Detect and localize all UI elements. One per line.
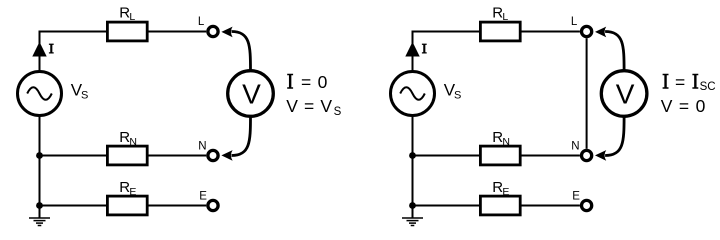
resistor R_L (right) (480, 22, 520, 41)
svg-text:V: V (616, 78, 635, 109)
svg-text:L: L (129, 11, 135, 23)
probe arrow voltmeter to N (left) (232, 116, 251, 156)
junction node earth row (left) (36, 202, 43, 209)
voltmeter V (right) (601, 71, 647, 117)
equation I (right line 1, rhs) (692, 75, 698, 89)
wire: bus to R_N (left) (40, 155, 108, 157)
resistor R_E (left) (107, 196, 147, 215)
svg-text:N: N (571, 140, 579, 152)
wire: bus to R_E (right) (413, 205, 481, 207)
svg-text:SC: SC (700, 81, 716, 93)
terminal node L (left) (208, 26, 218, 36)
voltmeter V (left) (228, 71, 274, 117)
voltage source V_S (left) (18, 72, 62, 116)
svg-text:V = 0: V = 0 (661, 96, 706, 116)
label I current (left) (49, 44, 54, 53)
current arrow I (right) (406, 43, 419, 56)
probe arrow voltmeter to L (left) (232, 32, 251, 72)
sine symbol inside source (left) (27, 87, 52, 100)
svg-text:N: N (198, 140, 206, 152)
wire: top row from source corner to R_L (left) (40, 32, 108, 73)
terminal node L (right) (582, 26, 592, 36)
junction node neutral row (left) (36, 152, 43, 159)
resistor R_L (left) (107, 22, 147, 41)
svg-text:L: L (571, 16, 578, 28)
wire: R_E to terminal E (left) (148, 205, 207, 207)
svg-text:L: L (502, 11, 508, 23)
wire: bus to R_N (right) (413, 155, 481, 157)
terminal node E (right) (582, 200, 592, 210)
ground symbol (right) (402, 218, 423, 226)
wire: bus to R_L (left) (40, 31, 108, 33)
wire: short-circuit link L to N (right) (586, 38, 588, 148)
wire: R_N to terminal N (right) (521, 155, 580, 157)
junction node earth row (right) (409, 202, 416, 209)
svg-text:L: L (198, 16, 205, 28)
svg-text:V: V (242, 78, 261, 109)
resistor R_E (right) (480, 196, 520, 215)
terminal node N (left) (208, 150, 218, 160)
svg-text:S: S (334, 106, 342, 118)
wire: R_L to terminal L (left) (148, 31, 207, 33)
wire: bus to R_L (right) (413, 31, 481, 33)
wire: bus to R_E (left) (40, 205, 108, 207)
wire: source bottom to ground (left) (39, 115, 41, 218)
svg-text:E: E (572, 190, 580, 202)
svg-text:E: E (502, 186, 509, 198)
wire: R_N to terminal N (left) (148, 155, 207, 157)
svg-text:=: = (675, 72, 685, 92)
sine symbol inside source (right) (400, 87, 425, 100)
wire: R_E to terminal E (right) (521, 205, 580, 207)
svg-text:N: N (502, 136, 510, 148)
equation I (right line 1, lhs) (663, 75, 669, 89)
svg-text:S: S (454, 90, 461, 102)
svg-text:E: E (129, 186, 136, 198)
svg-text:N: N (129, 136, 137, 148)
ground symbol (left) (29, 218, 50, 226)
wire: source bottom to ground (right) (412, 115, 414, 218)
terminal node N (right) (582, 150, 592, 160)
equation I (left line 1) (287, 75, 293, 89)
probe arrow voltmeter to L (right) (605, 32, 624, 72)
junction node neutral row (right) (409, 152, 416, 159)
svg-text:S: S (81, 90, 88, 102)
resistor R_N (left) (107, 146, 147, 165)
resistor R_N (right) (480, 146, 520, 165)
wire: top row from source corner to R_L (right) (413, 32, 481, 73)
probe arrow voltmeter to N (right) (605, 116, 624, 156)
label I current (right) (422, 44, 427, 53)
svg-text:= 0: = 0 (301, 72, 328, 92)
terminal node E (left) (208, 200, 218, 210)
svg-text:V = V: V = V (286, 96, 332, 116)
svg-text:E: E (199, 190, 207, 202)
wire: R_L to terminal L (right) (521, 31, 580, 33)
voltage source V_S (right) (391, 72, 435, 116)
current arrow I (left) (33, 43, 46, 56)
